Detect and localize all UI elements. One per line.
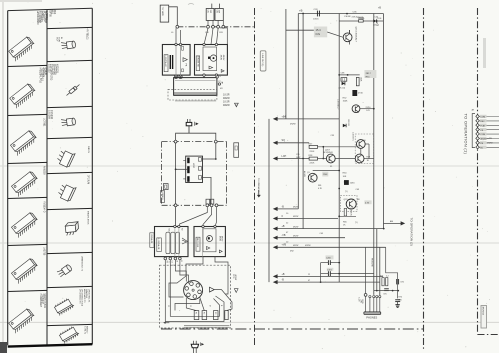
svg-text:P4R2S: P4R2S: [87, 146, 89, 153]
svg-text:TO OPERATION (2): TO OPERATION (2): [410, 218, 414, 247]
capacitor C34: [375, 17, 380, 26]
dashed select block: [341, 196, 358, 217]
svg-text:LCH: LCH: [357, 298, 359, 303]
transistor package 1SS269 TO-92: [48, 110, 76, 127]
svg-text:C2: C2: [219, 75, 221, 77]
node TO TAPE box: [160, 5, 169, 22]
transistor package DF10UM: [57, 175, 89, 202]
junction circle: [174, 140, 177, 143]
transistor Q22: [355, 154, 374, 163]
svg-text:1SS133: 1SS133: [347, 119, 349, 126]
wire: [200, 297, 205, 311]
junction: [383, 228, 385, 230]
transistor package uPC4558 SOT: [57, 256, 84, 278]
bus wire: [285, 9, 287, 119]
IC package LC7982-04: [56, 146, 89, 168]
svg-text:+VB: +VB: [282, 244, 287, 247]
svg-text:C1: C1: [167, 305, 169, 307]
terminal T3: [214, 311, 219, 320]
dash-dot boundary line: [177, 26, 254, 28]
crossed junction: [174, 75, 182, 78]
wire: [365, 247, 367, 293]
wire: [165, 260, 224, 322]
svg-text:2B17: 2B17: [366, 73, 372, 75]
svg-text:10K: 10K: [343, 176, 347, 178]
svg-text:PHONES: PHONES: [366, 316, 377, 320]
terminal T4: [225, 311, 228, 320]
wire: [169, 257, 203, 297]
svg-text:4R2D20: 4R2D20: [56, 64, 59, 73]
svg-text:COM: COM: [58, 37, 60, 42]
svg-text:TO OPERATION (1): TO OPERATION (1): [464, 114, 469, 155]
resistor R50: [358, 17, 365, 22]
junction circle: [174, 225, 180, 227]
transistor Q18: [343, 13, 356, 45]
wire: [318, 158, 327, 160]
svg-text:REC12VR: REC12VR: [196, 238, 198, 248]
capacitor C40: [352, 90, 362, 96]
bus wire: [338, 14, 340, 283]
svg-text:15.4: 15.4: [316, 28, 322, 32]
transistor Q21: [351, 132, 373, 164]
svg-text:L12VRA-4R: L12VRA-4R: [157, 239, 160, 250]
wire: [211, 4, 213, 9]
svg-text:+B: +B: [378, 7, 381, 10]
svg-text:C1815(Y): C1815(Y): [350, 208, 352, 216]
wire: [175, 207, 177, 227]
wire: [203, 74, 218, 78]
voltage callout R30: [322, 172, 328, 177]
bus wire: [268, 119, 270, 282]
net +B arrow low: [273, 273, 383, 279]
svg-text:-B: -B: [282, 279, 285, 282]
module REC/PB head: [162, 45, 190, 76]
svg-text:4R2M: 4R2M: [218, 236, 220, 241]
svg-text:AN6250: AN6250: [43, 166, 46, 175]
svg-text:uPD6708G-T1: uPD6708G-T1: [87, 289, 89, 303]
bus wire: [382, 14, 384, 229]
svg-text:220K: 220K: [323, 174, 328, 176]
net +VB label: [360, 299, 362, 304]
svg-text:2.2: 2.2: [386, 275, 389, 277]
svg-text:47/16: 47/16: [358, 93, 363, 95]
package table: [8, 8, 93, 346]
wire: [215, 143, 217, 159]
junction circle: [174, 257, 179, 262]
net label LCH: [357, 298, 363, 305]
capacitor C35: [352, 11, 358, 18]
wire: [338, 215, 356, 217]
voltage callout 2B17: [364, 70, 376, 78]
net PB MUTE label: [371, 258, 373, 268]
svg-text:4R-T81(1): 4R-T81(1): [86, 29, 89, 40]
dash-dot module boundary: [162, 142, 227, 206]
motor M1: [184, 281, 203, 300]
wire: [220, 28, 227, 45]
wire: [204, 28, 218, 44]
svg-text:22/16: 22/16: [366, 107, 372, 109]
svg-text:NJM4556: NJM4556: [85, 289, 87, 299]
junction circle: [179, 257, 183, 262]
svg-text:4R2W: 4R2W: [234, 274, 236, 280]
transistor Q20: [324, 149, 336, 167]
amp triangle: [210, 287, 215, 292]
svg-text:LINE OUT(1): LINE OUT(1): [261, 54, 263, 67]
terminal T1: [194, 311, 199, 320]
svg-text:ERASE HD: ERASE HD: [196, 57, 199, 68]
transistor Q19: [336, 99, 360, 113]
junction circle: [176, 25, 179, 28]
svg-text:22: 22: [308, 274, 310, 276]
junction circle: [210, 204, 213, 207]
bus wire: [376, 229, 378, 291]
svg-text:TPS: TPS: [232, 274, 234, 279]
svg-text:220/6.3: 220/6.3: [376, 20, 378, 26]
svg-text:W.2(R/B-F): W.2(R/B-F): [324, 152, 334, 154]
svg-text:4R2M: 4R2M: [220, 55, 222, 61]
callout box bottom right: [481, 306, 487, 329]
terminal T2: [202, 311, 207, 320]
wire: [286, 29, 314, 31]
svg-text:P1: P1: [195, 312, 197, 314]
resistor R49: [338, 73, 359, 82]
bus wire: [373, 14, 375, 295]
wire: [327, 32, 343, 37]
svg-text:PLAY: PLAY: [480, 124, 486, 127]
svg-text:4R2: 4R2: [53, 10, 57, 15]
svg-text:4R2W: 4R2W: [487, 143, 493, 145]
IC package BA6247 SOP: [59, 325, 89, 343]
wire: [215, 207, 217, 227]
resistor R57 220K: [309, 143, 318, 153]
capacitor C62: [215, 9, 223, 21]
wire: [180, 260, 189, 284]
svg-text:47: 47: [308, 280, 310, 282]
wire: [176, 133, 216, 141]
wire: [360, 148, 362, 154]
junction circle: [212, 25, 215, 28]
wire: [175, 143, 177, 204]
svg-text:Q18 C1815(K)-Y: Q18 C1815(K)-Y: [355, 27, 357, 43]
switch block S1: [183, 156, 202, 182]
capacitor C63: [186, 119, 198, 133]
svg-text:L12VRA-4R: L12VRA-4R: [164, 56, 167, 68]
junction circle: [207, 25, 210, 28]
ground: [395, 302, 399, 308]
IC package uPC4556G2 SOP: [54, 289, 90, 316]
svg-text:4R2W: 4R2W: [293, 207, 298, 209]
svg-text:BA6247: BA6247: [86, 326, 89, 334]
svg-text:1SS244: 1SS244: [50, 110, 53, 120]
wire: [203, 207, 212, 227]
svg-text:C61: C61: [207, 10, 209, 13]
net +B top rail: [298, 9, 383, 15]
svg-text:C2: C2: [171, 261, 173, 263]
svg-text:C96: C96: [400, 282, 403, 284]
connector CN2 pins: [472, 110, 499, 150]
voltage callout R68: [364, 200, 371, 204]
wire junction bus: [208, 20, 223, 26]
IC package LC7981: [10, 118, 46, 156]
svg-text:4R2W: 4R2W: [221, 236, 223, 241]
node label STEREO: [161, 191, 165, 203]
svg-text:0.8s: 0.8s: [316, 33, 321, 36]
arrow: [163, 322, 169, 324]
svg-text:100K: 100K: [359, 77, 361, 82]
svg-text:10/16: 10/16: [313, 18, 319, 20]
value labels sprinkle: [167, 7, 381, 282]
svg-text:TO TAPE: TO TAPE: [161, 7, 164, 17]
part list note 05F05: [49, 10, 57, 18]
wire: [360, 108, 374, 110]
resistor R72: [386, 275, 389, 285]
svg-text:P3: P3: [214, 312, 216, 314]
wire: [175, 260, 186, 282]
svg-text:R61: R61: [318, 185, 321, 187]
net +B arrow: [273, 225, 384, 231]
svg-text:4R2W: 4R2W: [293, 226, 298, 228]
TO OPERATION (2) arrow: [384, 218, 414, 247]
net +VB arrow: [273, 244, 386, 250]
wire: [214, 290, 232, 311]
svg-text:9: 9: [235, 291, 236, 293]
wire: [313, 170, 340, 172]
net 0 arrow: [273, 215, 338, 221]
svg-text:220K: 220K: [310, 163, 315, 165]
svg-text:12: 12: [189, 305, 191, 307]
junction circle: [215, 204, 218, 207]
wire: [176, 28, 181, 44]
junction circle: [174, 204, 177, 207]
svg-text:LA3735: LA3735: [43, 247, 46, 256]
wire: [170, 260, 219, 317]
capacitor C65: [210, 199, 213, 204]
svg-text:C95: C95: [383, 294, 386, 296]
svg-text:A1048: A1048: [303, 171, 306, 178]
svg-text:PB MUTE: PB MUTE: [371, 258, 373, 268]
dash-dot section divider 2: [423, 8, 425, 349]
junction circle: [169, 257, 173, 263]
transistor package 2SC1815 TO-92: [56, 29, 89, 50]
resistor R70: [399, 297, 402, 302]
svg-text:COM: COM: [480, 134, 485, 136]
resistor R58 220K: [309, 155, 318, 165]
svg-text:10/16: 10/16: [350, 183, 355, 185]
dashed wire: [168, 89, 217, 100]
net +B4 arrow: [273, 115, 339, 121]
wire: [186, 298, 196, 311]
svg-text:4R2W: 4R2W: [293, 216, 298, 218]
capacitor C64: [206, 199, 210, 204]
svg-text:4.7K: 4.7K: [365, 202, 370, 204]
pin labels: [167, 305, 222, 307]
svg-text:YM3534-D: YM3534-D: [43, 201, 46, 213]
wire: [339, 20, 383, 22]
junction: [376, 290, 399, 292]
IC package uPD4066BC: [8, 11, 48, 61]
svg-text:R2: R2: [181, 228, 183, 230]
svg-text:220K: 220K: [310, 151, 315, 153]
wire: [335, 158, 355, 160]
svg-text:+VB: +VB: [360, 299, 362, 304]
svg-text:+B4: +B4: [282, 115, 287, 118]
connector label CN3: [150, 233, 154, 248]
svg-text:100P: 100P: [296, 157, 301, 159]
svg-text:4R2W: 4R2W: [223, 104, 230, 107]
svg-text:100K: 100K: [343, 101, 348, 103]
svg-text:MB4X5-88/05: MB4X5-88/05: [87, 211, 89, 225]
wire: [175, 299, 200, 311]
bus wire: [379, 247, 381, 295]
net LCH arrow: [273, 146, 324, 161]
capacitor C200: [321, 255, 341, 265]
wire: [219, 4, 221, 9]
capacitor C95: [383, 289, 389, 296]
svg-text:C1815(K)-Y: C1815(K)-Y: [336, 99, 338, 110]
diode package 1SS133: [48, 64, 81, 97]
label TO OPERATION (1): [464, 114, 469, 155]
svg-text:4R2W: 4R2W: [293, 245, 298, 247]
IC package YM3534: [11, 201, 46, 238]
junction circle: [217, 25, 220, 28]
svg-text:4R2P: 4R2P: [192, 163, 194, 169]
dash-dot section divider: [254, 8, 256, 345]
svg-text:-B: -B: [282, 205, 285, 208]
junction circle: [202, 225, 216, 227]
net -VB arrow: [273, 234, 345, 240]
jack switch circle: [364, 294, 367, 297]
capacitor C33: [313, 9, 319, 20]
IC package AN6250: [11, 166, 46, 197]
net -B arrow low: [273, 279, 380, 285]
svg-text:uPC4556G2-T1: uPC4556G2-T1: [79, 289, 81, 304]
module erase head / motor: [195, 45, 228, 76]
capacitor C42: [344, 180, 355, 185]
svg-text:(Y): (Y): [355, 222, 358, 224]
svg-text:REC: REC: [480, 121, 485, 123]
junction circle: [203, 43, 218, 45]
svg-text:+B: +B: [282, 273, 285, 276]
net -B arrow: [273, 205, 299, 211]
svg-text:P2: P2: [203, 312, 205, 314]
resistor R51: [356, 77, 361, 86]
junction circle: [218, 82, 222, 86]
wire: [374, 290, 398, 292]
svg-text:▲PB: ▲PB: [487, 137, 492, 140]
svg-text:C39: C39: [296, 154, 299, 156]
wire: [320, 263, 322, 283]
resistor R1 side box: [234, 143, 239, 158]
bus wire: [302, 14, 304, 229]
transistor Q23: [344, 199, 361, 209]
wire: [180, 207, 208, 227]
svg-text:R50(A): R50(A): [357, 16, 364, 19]
wire: [202, 158, 217, 160]
wire: [202, 177, 212, 204]
svg-text:4R2W: 4R2W: [290, 124, 296, 126]
diode D30: [373, 18, 381, 26]
junction circle: [206, 204, 209, 207]
bus wire: [297, 14, 299, 209]
svg-text:4R2W: 4R2W: [293, 235, 298, 237]
capacitor C96: [397, 279, 404, 284]
net SQ arrow: [273, 139, 309, 145]
dash-dot boundary bottom: [161, 328, 424, 330]
svg-text:C36 EF: C36 EF: [344, 16, 352, 18]
svg-text:(0S.C0): (0S.C0): [339, 87, 346, 89]
capacitor C66: [191, 341, 204, 353]
svg-text:LC7981: LC7981: [43, 118, 46, 127]
dashed mechanism box: [160, 265, 231, 328]
transistor Q24: [303, 171, 317, 182]
diode D31: [339, 82, 346, 90]
IC package LA3735: [11, 247, 46, 284]
svg-text:COM: COM: [480, 117, 485, 119]
svg-text:SOL: SOL: [168, 228, 170, 232]
svg-text:LA3700: LA3700: [45, 11, 48, 20]
svg-text:DF10UM: DF10UM: [87, 175, 89, 184]
svg-text:LCH: LCH: [282, 155, 287, 158]
svg-text:C62: C62: [215, 10, 217, 13]
node label box: [260, 51, 266, 71]
svg-text:M6M747-B01: M6M747-B01: [43, 294, 46, 309]
module playback amp: [155, 227, 189, 257]
wire: [215, 257, 228, 294]
capacitor C201: [321, 268, 374, 276]
junction: [320, 281, 322, 283]
connector board CN1: [174, 78, 217, 102]
svg-text:12VRA-4R: 12VRA-4R: [150, 234, 153, 244]
jack contacts: [369, 296, 381, 298]
svg-text:R70: R70: [399, 297, 402, 299]
resistor R71: [380, 275, 384, 285]
capacitor C61: [206, 9, 214, 21]
dash-dot section divider 3: [478, 8, 499, 335]
svg-text:+B: +B: [299, 9, 303, 13]
svg-text:+B: +B: [282, 225, 285, 228]
wire: [169, 7, 178, 26]
junction circle: [175, 43, 182, 45]
svg-text:-VB: -VB: [282, 234, 286, 237]
phones jack J1: [364, 312, 381, 314]
wire: [365, 296, 367, 311]
svg-text:AM: AM: [390, 220, 393, 223]
junction circle: [214, 140, 217, 143]
svg-text:10: 10: [235, 105, 237, 107]
wire: [318, 146, 357, 148]
svg-text:(Y): (Y): [345, 191, 348, 193]
module motor drive: [194, 227, 225, 257]
svg-text:R71: R71: [380, 275, 383, 277]
wire: [175, 168, 187, 170]
svg-text:uPA4556G2-T1: uPA4556G2-T1: [81, 256, 84, 272]
svg-text:STEREO: STEREO: [161, 191, 163, 200]
net label 4R2W: [232, 274, 238, 292]
net label block: [223, 94, 238, 108]
rectifier package C-8(8A): [65, 211, 89, 236]
bus wire: [386, 247, 398, 298]
voltage callout 15.4V: [314, 27, 327, 38]
wire: [370, 298, 380, 312]
junction circle: [164, 257, 168, 263]
IC package HD68B09EP: [8, 294, 46, 334]
svg-text:4R2W: 4R2W: [222, 55, 224, 61]
svg-text:uPC4558G2-T2(2): uPC4558G2-T2(2): [81, 289, 83, 306]
capacitor C97: [395, 300, 400, 302]
resistor R52: [343, 98, 348, 103]
diode D32: [343, 119, 349, 127]
svg-text:4R2W13: 4R2W13: [482, 307, 484, 316]
